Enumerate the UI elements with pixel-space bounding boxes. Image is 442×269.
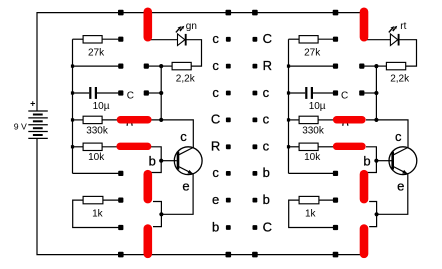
resistor R1 27k <box>73 36 121 59</box>
contact dots column 5 <box>333 37 338 231</box>
svg-text:c: c <box>212 31 219 46</box>
jumper red V0 left <box>144 12 153 37</box>
hidden letter feet under left jumper row4 <box>127 123 132 126</box>
resistor R7 330k <box>289 116 335 136</box>
contact dots column 2 <box>144 64 149 96</box>
svg-text:c: c <box>212 165 219 180</box>
junction dots right column <box>374 64 378 216</box>
svg-text:2,2k: 2,2k <box>176 73 196 84</box>
LED D2 rt <box>367 21 417 66</box>
svg-text:c: c <box>180 129 187 144</box>
wire left junction column vertical <box>160 66 162 120</box>
svg-text:e: e <box>397 178 404 193</box>
wire row2 right <box>289 65 336 67</box>
svg-text:c: c <box>212 58 219 73</box>
wire left collector branch <box>150 120 193 148</box>
svg-text:b: b <box>212 219 219 234</box>
contact dots column 6 <box>359 64 364 96</box>
svg-text:c: c <box>263 85 270 100</box>
svg-text:R: R <box>211 139 220 154</box>
wire left base lead <box>161 160 177 162</box>
svg-text:10µ: 10µ <box>93 101 110 112</box>
svg-text:c: c <box>263 112 270 127</box>
wire col6 row3 stub <box>362 92 377 94</box>
resistor R9 1k <box>289 196 336 227</box>
wire left rail vertical <box>72 39 74 173</box>
svg-text:C: C <box>211 112 220 127</box>
wire left emitter branch <box>161 174 193 214</box>
svg-text:C: C <box>263 31 272 46</box>
svg-text:27k: 27k <box>88 48 105 59</box>
capacitor C1 10µ <box>73 87 121 112</box>
svg-text:2,2k: 2,2k <box>390 73 410 84</box>
jumper red V0 right <box>360 12 369 37</box>
resistor R4 1k <box>73 196 121 227</box>
svg-text:e: e <box>212 192 219 207</box>
jumper red H4 left <box>120 116 147 123</box>
jumper red H5 left <box>120 143 148 150</box>
wire left emitter jumper link <box>153 202 161 227</box>
resistor R8 10k <box>289 143 335 163</box>
junction dots left column <box>159 64 163 216</box>
resistor R3 10k <box>73 143 120 163</box>
svg-text:330k: 330k <box>86 126 109 137</box>
hidden letter feet under right jumper row4 <box>343 123 348 126</box>
resistor R10 2,2k <box>376 62 410 84</box>
wire top supply rail <box>37 13 360 111</box>
svg-text:b: b <box>149 153 156 168</box>
wire left base branch <box>150 147 161 173</box>
transistor Q1 <box>149 129 202 193</box>
jumper red H4 right <box>337 116 362 123</box>
resistor R6 27k <box>289 36 336 59</box>
wire right base lead <box>376 160 391 162</box>
svg-text:c: c <box>212 85 219 100</box>
svg-text:C: C <box>263 219 272 234</box>
contact dots column 1 <box>118 37 123 231</box>
svg-text:c: c <box>395 129 402 144</box>
wire row2 left <box>73 65 121 67</box>
wire col6 row2 stub <box>362 65 377 67</box>
svg-text:1k: 1k <box>305 208 317 219</box>
capacitor C2 10µ <box>289 87 336 112</box>
svg-text:10k: 10k <box>88 152 105 163</box>
svg-text:+: + <box>30 98 35 108</box>
resistor R2 330k <box>73 116 120 136</box>
wire row6 right <box>289 172 336 174</box>
wire right collector branch <box>366 120 408 148</box>
contact dots column 3 <box>226 37 231 230</box>
svg-text:1k: 1k <box>92 208 104 219</box>
svg-text:e: e <box>182 178 189 193</box>
junction squares left rail <box>71 65 74 149</box>
resistor R5 2,2k <box>161 62 196 84</box>
svg-text:b: b <box>263 192 270 207</box>
jumper red V1 left <box>144 174 153 199</box>
contact dots column 4 <box>253 37 258 230</box>
wire row6 left <box>73 172 121 174</box>
wire right rail vertical <box>288 39 290 173</box>
wire right emitter branch <box>377 174 408 214</box>
svg-text:c: c <box>263 139 270 154</box>
svg-text:rt: rt <box>400 21 406 32</box>
junction squares right rail <box>287 65 290 149</box>
jumper red V1 right <box>360 174 369 199</box>
wire right junction column vertical <box>375 66 377 120</box>
contact dots bottom rail <box>118 252 338 258</box>
wire col2 row2 stub <box>146 65 161 67</box>
contact dots top rail <box>118 10 338 16</box>
svg-text:C: C <box>341 91 348 102</box>
breadboard grid letters right column <box>263 31 272 234</box>
svg-text:b: b <box>263 165 270 180</box>
svg-text:330k: 330k <box>302 126 325 137</box>
breadboard grid letters left column <box>211 31 220 234</box>
wire right emitter jumper link <box>369 202 376 227</box>
jumper red H5 right <box>337 143 362 150</box>
svg-text:27k: 27k <box>304 48 321 59</box>
transistor Q2 <box>363 129 416 193</box>
wire right base branch <box>366 147 376 173</box>
wire col2 row3 stub <box>146 92 161 94</box>
svg-text:b: b <box>363 153 370 168</box>
jumper red V2 right <box>360 229 369 254</box>
LED D1 gn <box>150 21 202 66</box>
svg-text:10µ: 10µ <box>309 101 326 112</box>
jumper red V2 left <box>144 229 153 254</box>
svg-text:10k: 10k <box>304 152 321 163</box>
svg-text:R: R <box>263 58 272 73</box>
svg-text:C: C <box>127 91 134 102</box>
svg-text:gn: gn <box>186 21 197 32</box>
wire bottom return rail <box>37 139 360 255</box>
battery BT1 9V <box>14 98 48 138</box>
svg-text:9 V: 9 V <box>14 121 27 131</box>
